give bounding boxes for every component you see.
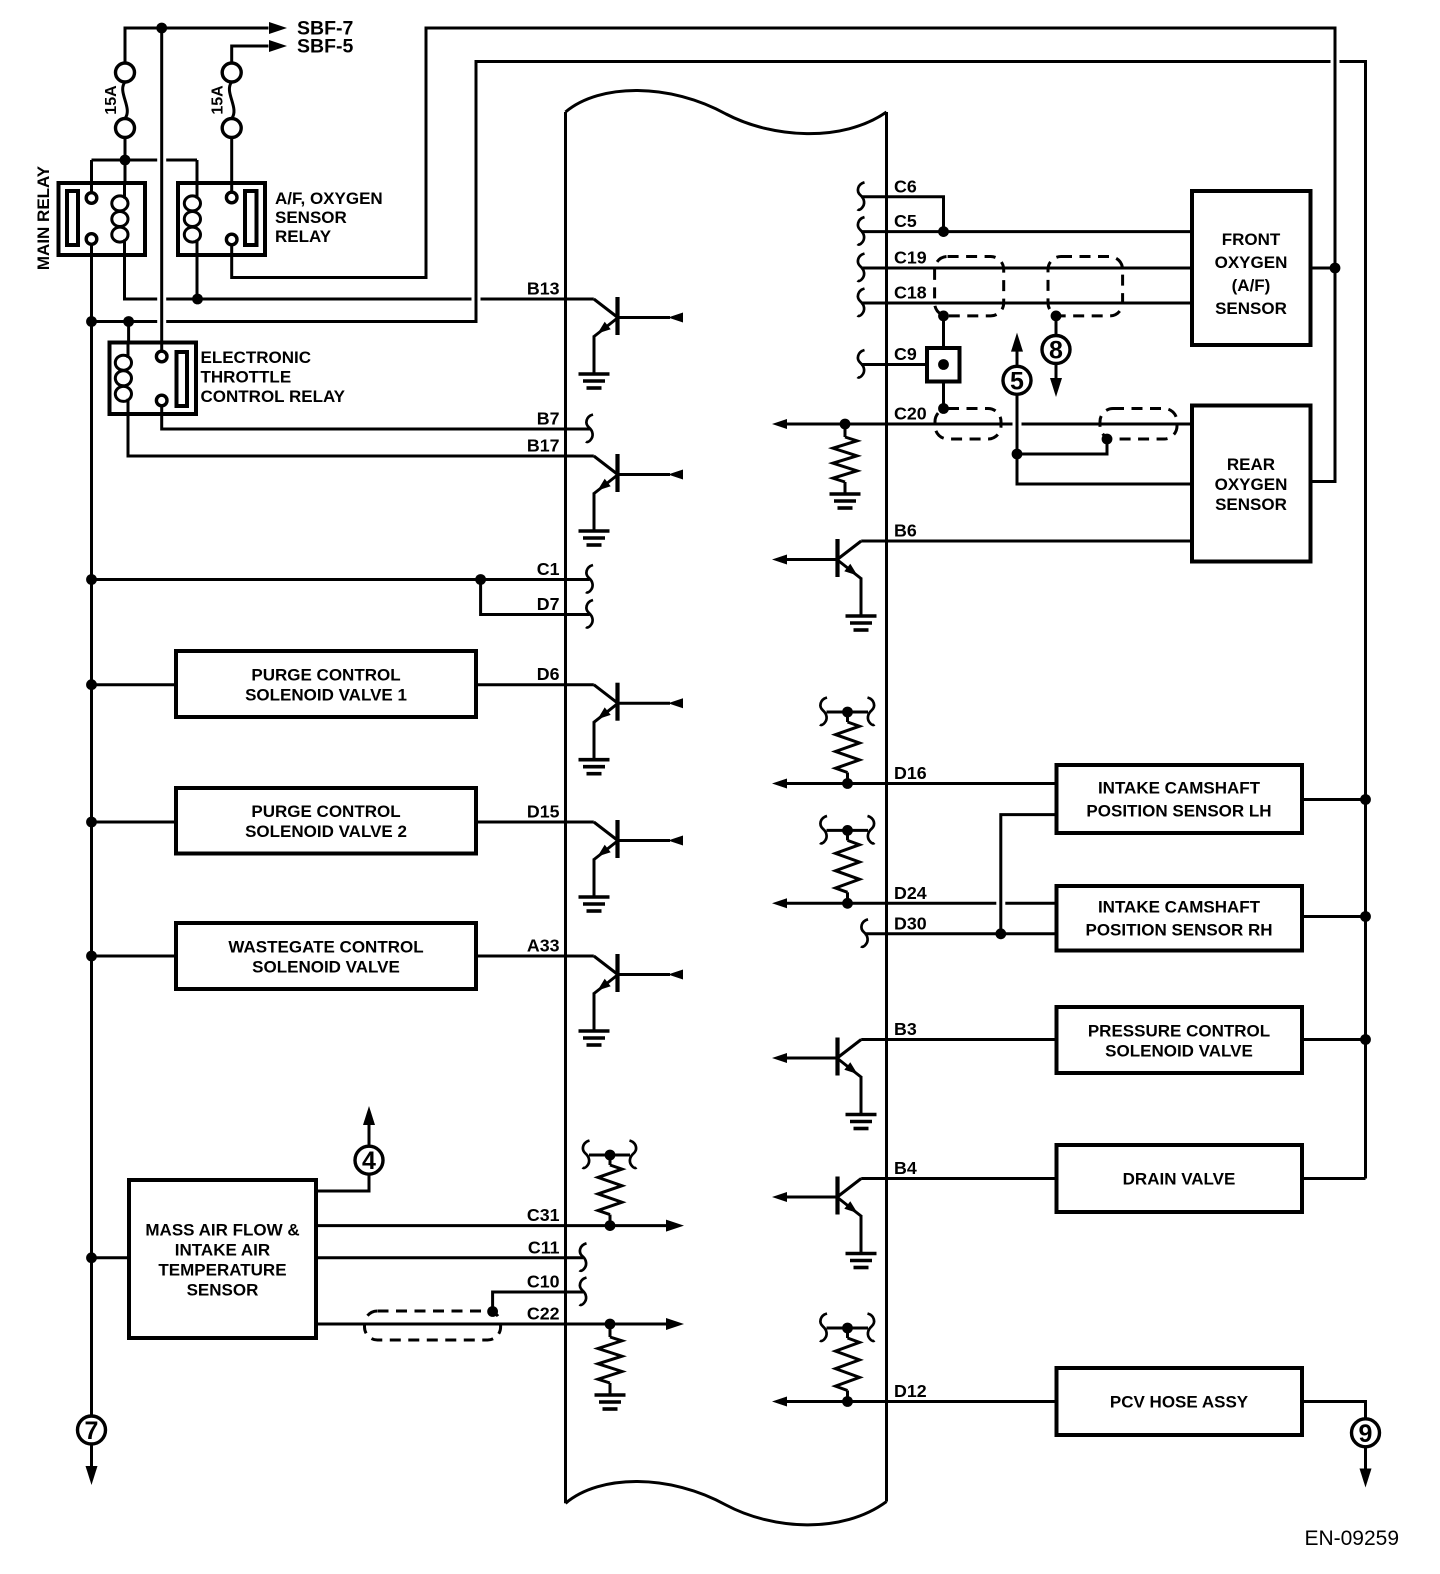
wire ETC coil return to B17 <box>128 414 594 456</box>
wire ETC contact out to B7 <box>162 406 591 429</box>
svg-text:B4: B4 <box>894 1158 917 1178</box>
svg-text:C5: C5 <box>894 211 917 231</box>
wire ETC coil top feed <box>127 322 130 343</box>
svg-text:D7: D7 <box>537 594 560 614</box>
wire rear shield drain to ref 5 node <box>1017 439 1107 454</box>
junction C20 pull-down <box>840 419 851 430</box>
label C31 <box>527 1205 560 1225</box>
junction D30 / LH sensor ground <box>995 928 1006 939</box>
junction throttle relay coil feed <box>123 316 134 327</box>
svg-text:D24: D24 <box>894 883 927 903</box>
svg-text:B17: B17 <box>527 436 560 456</box>
wire C22 <box>316 1323 666 1326</box>
svg-text:B13: B13 <box>527 279 560 299</box>
label D7 <box>537 594 560 614</box>
label D12 <box>894 1381 927 1401</box>
wire ref 5 arrow lead <box>1016 350 1019 366</box>
wire SBF-5 feed <box>232 46 269 63</box>
connector cut C6 <box>858 182 865 210</box>
svg-text:C10: C10 <box>527 1272 560 1292</box>
drain valve box <box>1057 1145 1303 1212</box>
wire main relay contact pin feed <box>90 160 93 193</box>
svg-text:4: 4 <box>362 1147 376 1175</box>
wire C19 to front oxygen sensor <box>861 267 1192 270</box>
svg-text:EN-09259: EN-09259 <box>1304 1527 1399 1550</box>
svg-text:THROTTLE: THROTTLE <box>201 368 292 387</box>
wire relay coil return to B13 (segment 1) <box>125 255 158 299</box>
wire SBF-7 feed (top rail y=28) <box>125 28 269 84</box>
wire C9 <box>861 363 927 366</box>
wire shield drain to C9 <box>942 316 945 348</box>
shield (rear O2 cable, segment 1) <box>935 409 1001 440</box>
wire switched +B rail y=321.5 (left of crossing) <box>92 320 158 323</box>
ref circle 8 <box>1042 336 1070 365</box>
ref circle 7 <box>78 1416 106 1445</box>
ECU right edge <box>885 112 888 1502</box>
A/F oxygen sensor relay box <box>178 183 265 255</box>
wire front O2 +B <box>1311 267 1336 270</box>
arrow up (ref 5) <box>1011 333 1023 352</box>
arrow D24 in <box>772 898 787 908</box>
svg-text:C18: C18 <box>894 283 927 303</box>
PCV hose assy box <box>1057 1368 1303 1435</box>
junction node fuse F1 / rail <box>120 155 131 166</box>
resistor R2 (C22 pull-down) <box>598 1324 622 1395</box>
svg-text:C11: C11 <box>528 1237 560 1257</box>
svg-text:POSITION SENSOR LH: POSITION SENSOR LH <box>1086 802 1271 821</box>
wire purge valve 1 feed <box>92 683 177 686</box>
label B13 <box>527 279 560 299</box>
svg-text:SBF-5: SBF-5 <box>297 36 353 58</box>
svg-text:SOLENOID VALVE: SOLENOID VALVE <box>252 958 400 977</box>
label C5 <box>894 211 917 231</box>
svg-text:INTAKE CAMSHAFT: INTAKE CAMSHAFT <box>1098 898 1261 917</box>
label B4 <box>894 1158 917 1178</box>
svg-text:INTAKE CAMSHAFT: INTAKE CAMSHAFT <box>1098 779 1261 798</box>
svg-text:C31: C31 <box>527 1205 560 1225</box>
svg-text:TEMPERATURE: TEMPERATURE <box>158 1261 286 1280</box>
label B7 <box>537 409 560 429</box>
wire ref 8 down <box>1055 363 1058 379</box>
wire C10 to shield <box>493 1292 583 1312</box>
wire rear O2 +B <box>1311 268 1336 482</box>
connector cut D7 <box>586 600 593 628</box>
wastegate control solenoid valve box <box>176 923 476 989</box>
arrow C22 out <box>666 1318 684 1330</box>
svg-text:FRONT: FRONT <box>1222 230 1281 249</box>
wire MAF supply to ref 4 <box>316 1174 369 1191</box>
svg-text:WASTEGATE CONTROL: WASTEGATE CONTROL <box>228 938 423 957</box>
wire C20 to rear oxygen sensor (left of crossing) <box>786 423 1013 426</box>
svg-text:REAR: REAR <box>1227 455 1275 474</box>
junction main relay output / switched rail <box>86 316 97 327</box>
svg-text:5: 5 <box>1010 367 1024 395</box>
svg-text:C20: C20 <box>894 404 927 424</box>
arrow to SBF-5 <box>269 40 287 52</box>
rear oxygen sensor box <box>1192 406 1311 562</box>
svg-text:SOLENOID VALVE: SOLENOID VALVE <box>1105 1042 1253 1061</box>
svg-text:MAIN RELAY: MAIN RELAY <box>34 165 53 270</box>
svg-text:B7: B7 <box>537 409 560 429</box>
ECU bottom wavy edge <box>566 1482 887 1525</box>
ref circle 9 <box>1352 1419 1380 1448</box>
svg-text:SENSOR: SENSOR <box>275 208 347 227</box>
wire C5 to front oxygen sensor <box>861 230 1192 233</box>
ETC relay pin (contact out) <box>156 395 167 406</box>
C9 shield tie box <box>927 348 960 382</box>
label C10 <box>527 1272 560 1292</box>
label MAIN RELAY <box>34 165 53 270</box>
svg-text:D6: D6 <box>537 664 560 684</box>
label PURGE CONTROL SOLENOID VALVE 2 <box>245 802 407 841</box>
wire fused-B+ rail y=160 (right of crossing) <box>166 159 197 162</box>
transistor Q4 (D15 driver) <box>579 820 684 911</box>
wire switched +B feed right vertical <box>1340 62 1366 1179</box>
svg-text:RELAY: RELAY <box>275 227 332 246</box>
svg-text:SOLENOID VALVE 1: SOLENOID VALVE 1 <box>245 686 407 705</box>
svg-text:C6: C6 <box>894 176 917 196</box>
pull-up resistor R1 (C31) <box>583 1141 637 1232</box>
junction node on left rail (purge 1) <box>86 679 97 690</box>
svg-text:PURGE CONTROL: PURGE CONTROL <box>251 802 400 821</box>
resistor R3 (C20 pull-down) <box>833 424 857 494</box>
main relay coil <box>112 183 128 255</box>
wire B3 to pressure control valve <box>861 1038 1056 1041</box>
transistor Q8 (B4 driver) <box>772 1177 877 1268</box>
wire C6 <box>861 197 944 232</box>
junction C1/D7 branch <box>475 574 486 585</box>
pull-up resistor R4 (D16) <box>820 698 875 789</box>
ETC relay contact bar <box>177 352 188 406</box>
main relay box <box>59 183 146 255</box>
mass air flow & intake air temperature sensor box <box>129 1180 316 1338</box>
shield (front O2 cable, segment 1) <box>935 257 1004 316</box>
connector cut C19 <box>858 254 865 282</box>
label D16 <box>894 763 927 783</box>
svg-text:OXYGEN: OXYGEN <box>1215 253 1288 272</box>
svg-text:ELECTRONIC: ELECTRONIC <box>201 348 312 367</box>
junction node on left rail (wastegate) <box>86 951 97 962</box>
wire fuse F2 to A/F relay contact <box>230 138 233 193</box>
svg-text:B6: B6 <box>894 521 917 541</box>
junction shield drain (seg 1) <box>938 311 949 322</box>
wire D12 to PCV hose assy <box>786 1400 1057 1403</box>
label SBF-5 <box>297 36 353 58</box>
junction shield 2 drain <box>1051 311 1062 322</box>
junction ref 5 node <box>1012 449 1023 460</box>
junction node on SBF-7 rail <box>156 23 167 34</box>
wire fuse F1 to relay node <box>124 138 127 184</box>
wire relay coil return to B13 (segment 2) <box>166 298 471 301</box>
svg-text:SOLENOID VALVE 2: SOLENOID VALVE 2 <box>245 822 407 841</box>
intake camshaft position sensor LH box <box>1057 765 1303 833</box>
junction pressure valve supply <box>1360 1034 1371 1045</box>
electronic throttle control relay box <box>110 343 197 415</box>
arrow down (ref 9) <box>1360 1469 1372 1488</box>
svg-text:SENSOR: SENSOR <box>1215 299 1287 318</box>
label B6 <box>894 521 917 541</box>
ECU top wavy edge <box>566 90 887 133</box>
svg-text:CONTROL RELAY: CONTROL RELAY <box>201 387 346 406</box>
label REAR OXYGEN SENSOR <box>1215 455 1288 514</box>
wire C1 from ground rail <box>92 578 590 581</box>
fuse F1 15A (circles + element) <box>116 63 135 138</box>
transistor Q6 (B6 heater driver) <box>772 539 877 630</box>
ETC relay coil <box>115 343 131 415</box>
svg-text:PRESSURE CONTROL: PRESSURE CONTROL <box>1088 1022 1270 1041</box>
svg-text:DRAIN VALVE: DRAIN VALVE <box>1123 1170 1236 1189</box>
wire ref 5 up <box>1016 395 1019 455</box>
connector cut D30 <box>861 919 868 947</box>
wire D15 <box>476 821 594 824</box>
svg-text:INTAKE AIR: INTAKE AIR <box>175 1241 270 1260</box>
arrow D16 in <box>772 779 787 789</box>
wire D30 sensor ground <box>865 932 1057 935</box>
label INTAKE CAMSHAFT POSITION SENSOR LH <box>1086 779 1271 821</box>
wire ref 7 down <box>90 1444 93 1467</box>
junction node on left rail (C1) <box>86 574 97 585</box>
wire drain valve supply <box>1302 1177 1366 1180</box>
transistor Q3 (D6 driver) <box>579 683 684 774</box>
pressure control solenoid valve box <box>1057 1007 1303 1073</box>
arrow D12 in <box>772 1397 787 1407</box>
label 15A (fuse F1) <box>103 85 120 115</box>
arrow up (ref 4) <box>363 1106 375 1125</box>
wire A33 <box>476 955 594 958</box>
svg-text:SENSOR: SENSOR <box>187 1281 259 1300</box>
connector cut C5 <box>858 217 865 245</box>
label C18 <box>894 283 927 303</box>
svg-text:A33: A33 <box>527 936 560 956</box>
svg-text:15A: 15A <box>210 85 227 115</box>
wire ref 4 up <box>368 1124 371 1146</box>
junction coil return node <box>192 294 203 305</box>
svg-text:C22: C22 <box>527 1304 560 1324</box>
junction cam RH supply <box>1360 911 1371 922</box>
label B17 <box>527 436 560 456</box>
wire purge valve 2 feed <box>92 821 177 824</box>
A/F relay pin (contact out) <box>226 234 237 245</box>
transistor Q5 (A33 driver) <box>579 954 684 1045</box>
transistor Q7 (B3 driver) <box>772 1038 877 1129</box>
intake camshaft position sensor RH box <box>1057 886 1303 951</box>
svg-text:8: 8 <box>1049 337 1063 365</box>
purge control solenoid valve 2 box <box>176 788 476 854</box>
wire D16 to intake cam sensor LH <box>786 782 1057 785</box>
svg-text:B3: B3 <box>894 1019 917 1039</box>
arrow down (ref 7) <box>86 1466 98 1485</box>
label C9 <box>894 344 917 364</box>
junction node on left rail (MAF) <box>86 1252 97 1263</box>
wire switched +B rail y=321.5 (main run) <box>166 62 1330 322</box>
label PCV HOSE ASSY <box>1110 1393 1249 1412</box>
label D15 <box>527 802 560 822</box>
wire cam RH supply <box>1302 915 1366 918</box>
wire ref 5 node to rear O2 sensor <box>1017 454 1192 484</box>
label D30 <box>894 913 927 933</box>
label C22 <box>527 1304 560 1324</box>
wire LH sensor ground link <box>1001 815 1057 934</box>
svg-text:OXYGEN: OXYGEN <box>1215 475 1288 494</box>
pull-up resistor R5 (D24) <box>820 816 875 909</box>
svg-text:15A: 15A <box>103 85 120 115</box>
wire D6 <box>476 683 594 686</box>
arrow C20 in <box>772 419 787 429</box>
label DRAIN VALVE <box>1123 1170 1236 1189</box>
wire cam LH supply <box>1302 798 1366 801</box>
connector cut C10 <box>580 1278 587 1306</box>
label D24 <box>894 883 927 903</box>
wire C9 box down to rear shield <box>942 382 945 409</box>
wire SBF-7 rail down to throttle relay contact <box>160 28 163 352</box>
svg-text:C9: C9 <box>894 344 917 364</box>
wire fused-B+ rail y=160 (left of crossing) <box>92 159 158 162</box>
junction C22/pull-down <box>605 1319 616 1330</box>
wire A/F coil top feed <box>196 160 199 183</box>
svg-text:7: 7 <box>85 1417 99 1445</box>
label A/F, OXYGEN SENSOR RELAY <box>275 189 383 246</box>
arrow C31 out <box>666 1220 684 1232</box>
junction rear shield 2 drain <box>1102 434 1113 445</box>
label WASTEGATE CONTROL SOLENOID VALVE <box>228 938 423 977</box>
svg-text:PURGE CONTROL: PURGE CONTROL <box>251 666 400 685</box>
ECU left edge <box>564 112 567 1503</box>
connector cut C1 <box>586 565 593 593</box>
svg-text:POSITION SENSOR RH: POSITION SENSOR RH <box>1085 921 1272 940</box>
front oxygen (A/F) sensor box <box>1192 191 1311 345</box>
label SBF-7 <box>297 18 353 40</box>
main relay contact bar <box>67 191 78 245</box>
wire A/F relay contact output to +B rail <box>232 28 1335 278</box>
main relay pin (contact out) <box>86 234 97 245</box>
transistor Q2 (B17 driver) <box>579 454 684 545</box>
wire B4 to drain valve <box>861 1177 1056 1180</box>
connector cut C9 <box>858 350 865 378</box>
wire B6 to rear O2 heater <box>861 540 1192 543</box>
main relay pin (contact in) <box>86 193 97 204</box>
label C19 <box>894 248 927 268</box>
A/F relay coil <box>184 183 200 255</box>
wire D24 to intake cam sensor RH (right of crossing) <box>1005 902 1056 905</box>
label C6 <box>894 176 917 196</box>
svg-text:9: 9 <box>1359 1420 1373 1448</box>
wire pressure valve supply <box>1302 1038 1366 1041</box>
wire D24 to intake cam sensor RH (left of crossing) <box>786 902 996 905</box>
label MASS AIR FLOW & INTAKE AIR TEMPERATURE SENSOR <box>145 1221 299 1300</box>
wire C11 <box>316 1256 583 1259</box>
wire PCV to ref 9 <box>1302 1402 1366 1420</box>
label B3 <box>894 1019 917 1039</box>
connector cut C18 <box>858 289 865 317</box>
shield (front O2 cable, segment 2) <box>1048 257 1123 316</box>
junction cam LH supply <box>1360 794 1371 805</box>
svg-text:D16: D16 <box>894 763 927 783</box>
transistor Q1 (B13 relay driver) <box>579 297 684 388</box>
wire C18 to front oxygen sensor <box>861 302 1192 305</box>
svg-text:C19: C19 <box>894 248 927 268</box>
label INTAKE CAMSHAFT POSITION SENSOR RH <box>1085 898 1272 940</box>
junction rear shield drain <box>938 403 949 414</box>
figure number EN-09259 <box>1304 1527 1399 1550</box>
ground (C20 pull-down) <box>830 494 861 508</box>
wire D7 branch <box>481 580 590 615</box>
label 15A (fuse F2) <box>210 85 227 115</box>
wire C20 to rear oxygen sensor (right of crossing) <box>1022 423 1193 426</box>
junction node on left rail (purge 2) <box>86 817 97 828</box>
svg-text:D15: D15 <box>527 802 560 822</box>
A/F relay contact bar <box>245 191 257 245</box>
label PRESSURE CONTROL SOLENOID VALVE <box>1088 1022 1270 1061</box>
svg-text:SENSOR: SENSOR <box>1215 495 1287 514</box>
shield (rear O2 cable, segment 2) <box>1100 409 1177 440</box>
svg-text:D12: D12 <box>894 1381 927 1401</box>
wire A/F coil return <box>196 255 199 299</box>
label PURGE CONTROL SOLENOID VALVE 1 <box>245 666 407 705</box>
label A33 <box>527 936 560 956</box>
label C11 <box>528 1237 560 1257</box>
svg-text:MASS AIR FLOW &: MASS AIR FLOW & <box>145 1221 299 1240</box>
wire main relay output rail (left) <box>90 245 93 1417</box>
shield (MAF C22 cable) <box>365 1311 501 1340</box>
svg-text:D30: D30 <box>894 913 927 933</box>
A/F relay pin (contact in) <box>226 192 237 203</box>
ref circle 5 <box>1003 366 1031 395</box>
connector cut C11 <box>580 1243 587 1271</box>
svg-text:C1: C1 <box>537 559 560 579</box>
svg-text:A/F, OXYGEN: A/F, OXYGEN <box>275 189 383 208</box>
ref circle 4 <box>355 1146 383 1175</box>
wire MAF sensor ground feed <box>92 1256 130 1259</box>
junction C10/shield <box>487 1306 498 1317</box>
label D6 <box>537 664 560 684</box>
ground (C22 pull-down) <box>595 1395 626 1409</box>
wire relay coil return to B13 (segment 3) <box>481 298 594 301</box>
arrow down (ref 8) <box>1050 378 1062 397</box>
svg-text:PCV HOSE ASSY: PCV HOSE ASSY <box>1110 1393 1249 1412</box>
junction C6/C5 <box>938 226 949 237</box>
fuse F2 15A (circles + element) <box>222 63 241 138</box>
wire shield 2 to ref 8 <box>1055 316 1058 336</box>
junction C9 node <box>938 359 949 370</box>
svg-text:(A/F): (A/F) <box>1232 276 1271 295</box>
wire wastegate valve feed <box>92 955 177 958</box>
label C1 <box>537 559 560 579</box>
pull-up resistor R6 (D12) <box>820 1314 875 1407</box>
wire ref 9 down <box>1364 1446 1367 1468</box>
arrow to SBF-7 <box>269 22 287 34</box>
label ELECTRONIC THROTTLE CONTROL RELAY <box>201 348 346 406</box>
purge control solenoid valve 1 box <box>176 651 476 717</box>
junction front O2 +B <box>1330 263 1341 274</box>
label C20 <box>894 404 927 424</box>
wire C31 <box>316 1224 666 1227</box>
label FRONT OXYGEN (A/F) SENSOR <box>1215 230 1288 318</box>
connector cut B7 <box>586 415 593 443</box>
ETC relay pin (contact in) <box>156 351 167 362</box>
